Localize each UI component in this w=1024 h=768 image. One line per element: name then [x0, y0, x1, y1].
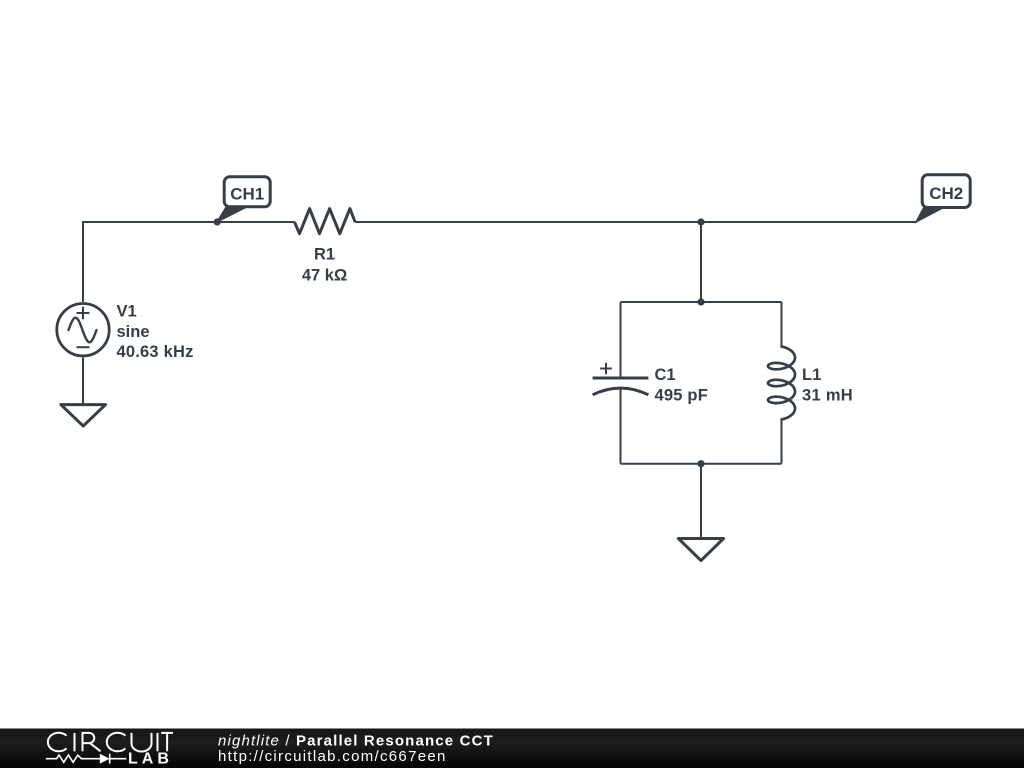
wire tank bottom rail — [621, 463, 782, 465]
wire tank to ground — [700, 464, 702, 539]
logo resistor-diode glyph — [46, 754, 127, 764]
logo diode triangle — [100, 754, 110, 764]
svg-text:sine: sine — [117, 323, 150, 341]
svg-text:CH1: CH1 — [230, 184, 264, 203]
node probe CH1 attach — [214, 218, 221, 225]
sine glyph V1 — [69, 318, 97, 343]
probe CH1 tail — [217, 208, 247, 223]
probe CH1 box — [224, 177, 270, 207]
wire inductor branch upper — [781, 302, 783, 347]
voltage source V1 — [57, 304, 109, 356]
svg-text:LAB: LAB — [128, 750, 173, 767]
wire junction to tank top — [700, 222, 702, 302]
ground (tank) — [678, 539, 723, 561]
footer bar — [0, 729, 1024, 768]
minus sign V1 — [77, 346, 90, 348]
node junction tank bottom — [697, 460, 704, 467]
wire V1 to ground — [82, 357, 84, 404]
svg-text:L1: L1 — [802, 366, 821, 384]
capacitor C1 top plate — [593, 377, 649, 380]
wire R1 to CH2 — [355, 221, 916, 223]
node junction on main wire — [697, 218, 704, 225]
polarity plus C1 — [600, 363, 612, 375]
probe CH2 tail — [916, 208, 945, 223]
capacitor C1 bottom plate — [593, 388, 649, 395]
wire capacitor branch lower — [620, 389, 622, 464]
svg-text:495 pF: 495 pF — [655, 387, 708, 405]
probe CH2 box — [922, 175, 970, 208]
plus sign V1 — [77, 307, 90, 320]
inductor L1 — [768, 347, 795, 420]
svg-text:CH2: CH2 — [929, 184, 963, 203]
wire capacitor branch upper — [620, 302, 622, 378]
node junction tank top — [697, 298, 704, 305]
svg-text:V1: V1 — [117, 302, 137, 320]
svg-text:47 kΩ: 47 kΩ — [302, 267, 347, 285]
svg-text:40.63 kHz: 40.63 kHz — [117, 343, 194, 361]
wire V1 to CH1/R1 — [83, 222, 295, 302]
svg-text:http://circuitlab.com/c667een: http://circuitlab.com/c667een — [218, 748, 447, 765]
logo CIRCUIT — [48, 733, 173, 752]
wire inductor branch lower — [781, 420, 783, 464]
svg-text:R1: R1 — [314, 246, 335, 264]
svg-text:31 mH: 31 mH — [802, 387, 853, 405]
svg-text:C1: C1 — [655, 366, 676, 384]
resistor R1 — [295, 209, 356, 234]
svg-text:nightlite / Parallel Resonance: nightlite / Parallel Resonance CCT — [218, 732, 494, 749]
wire tank top rail — [621, 301, 782, 303]
ground (V1) — [61, 405, 106, 426]
